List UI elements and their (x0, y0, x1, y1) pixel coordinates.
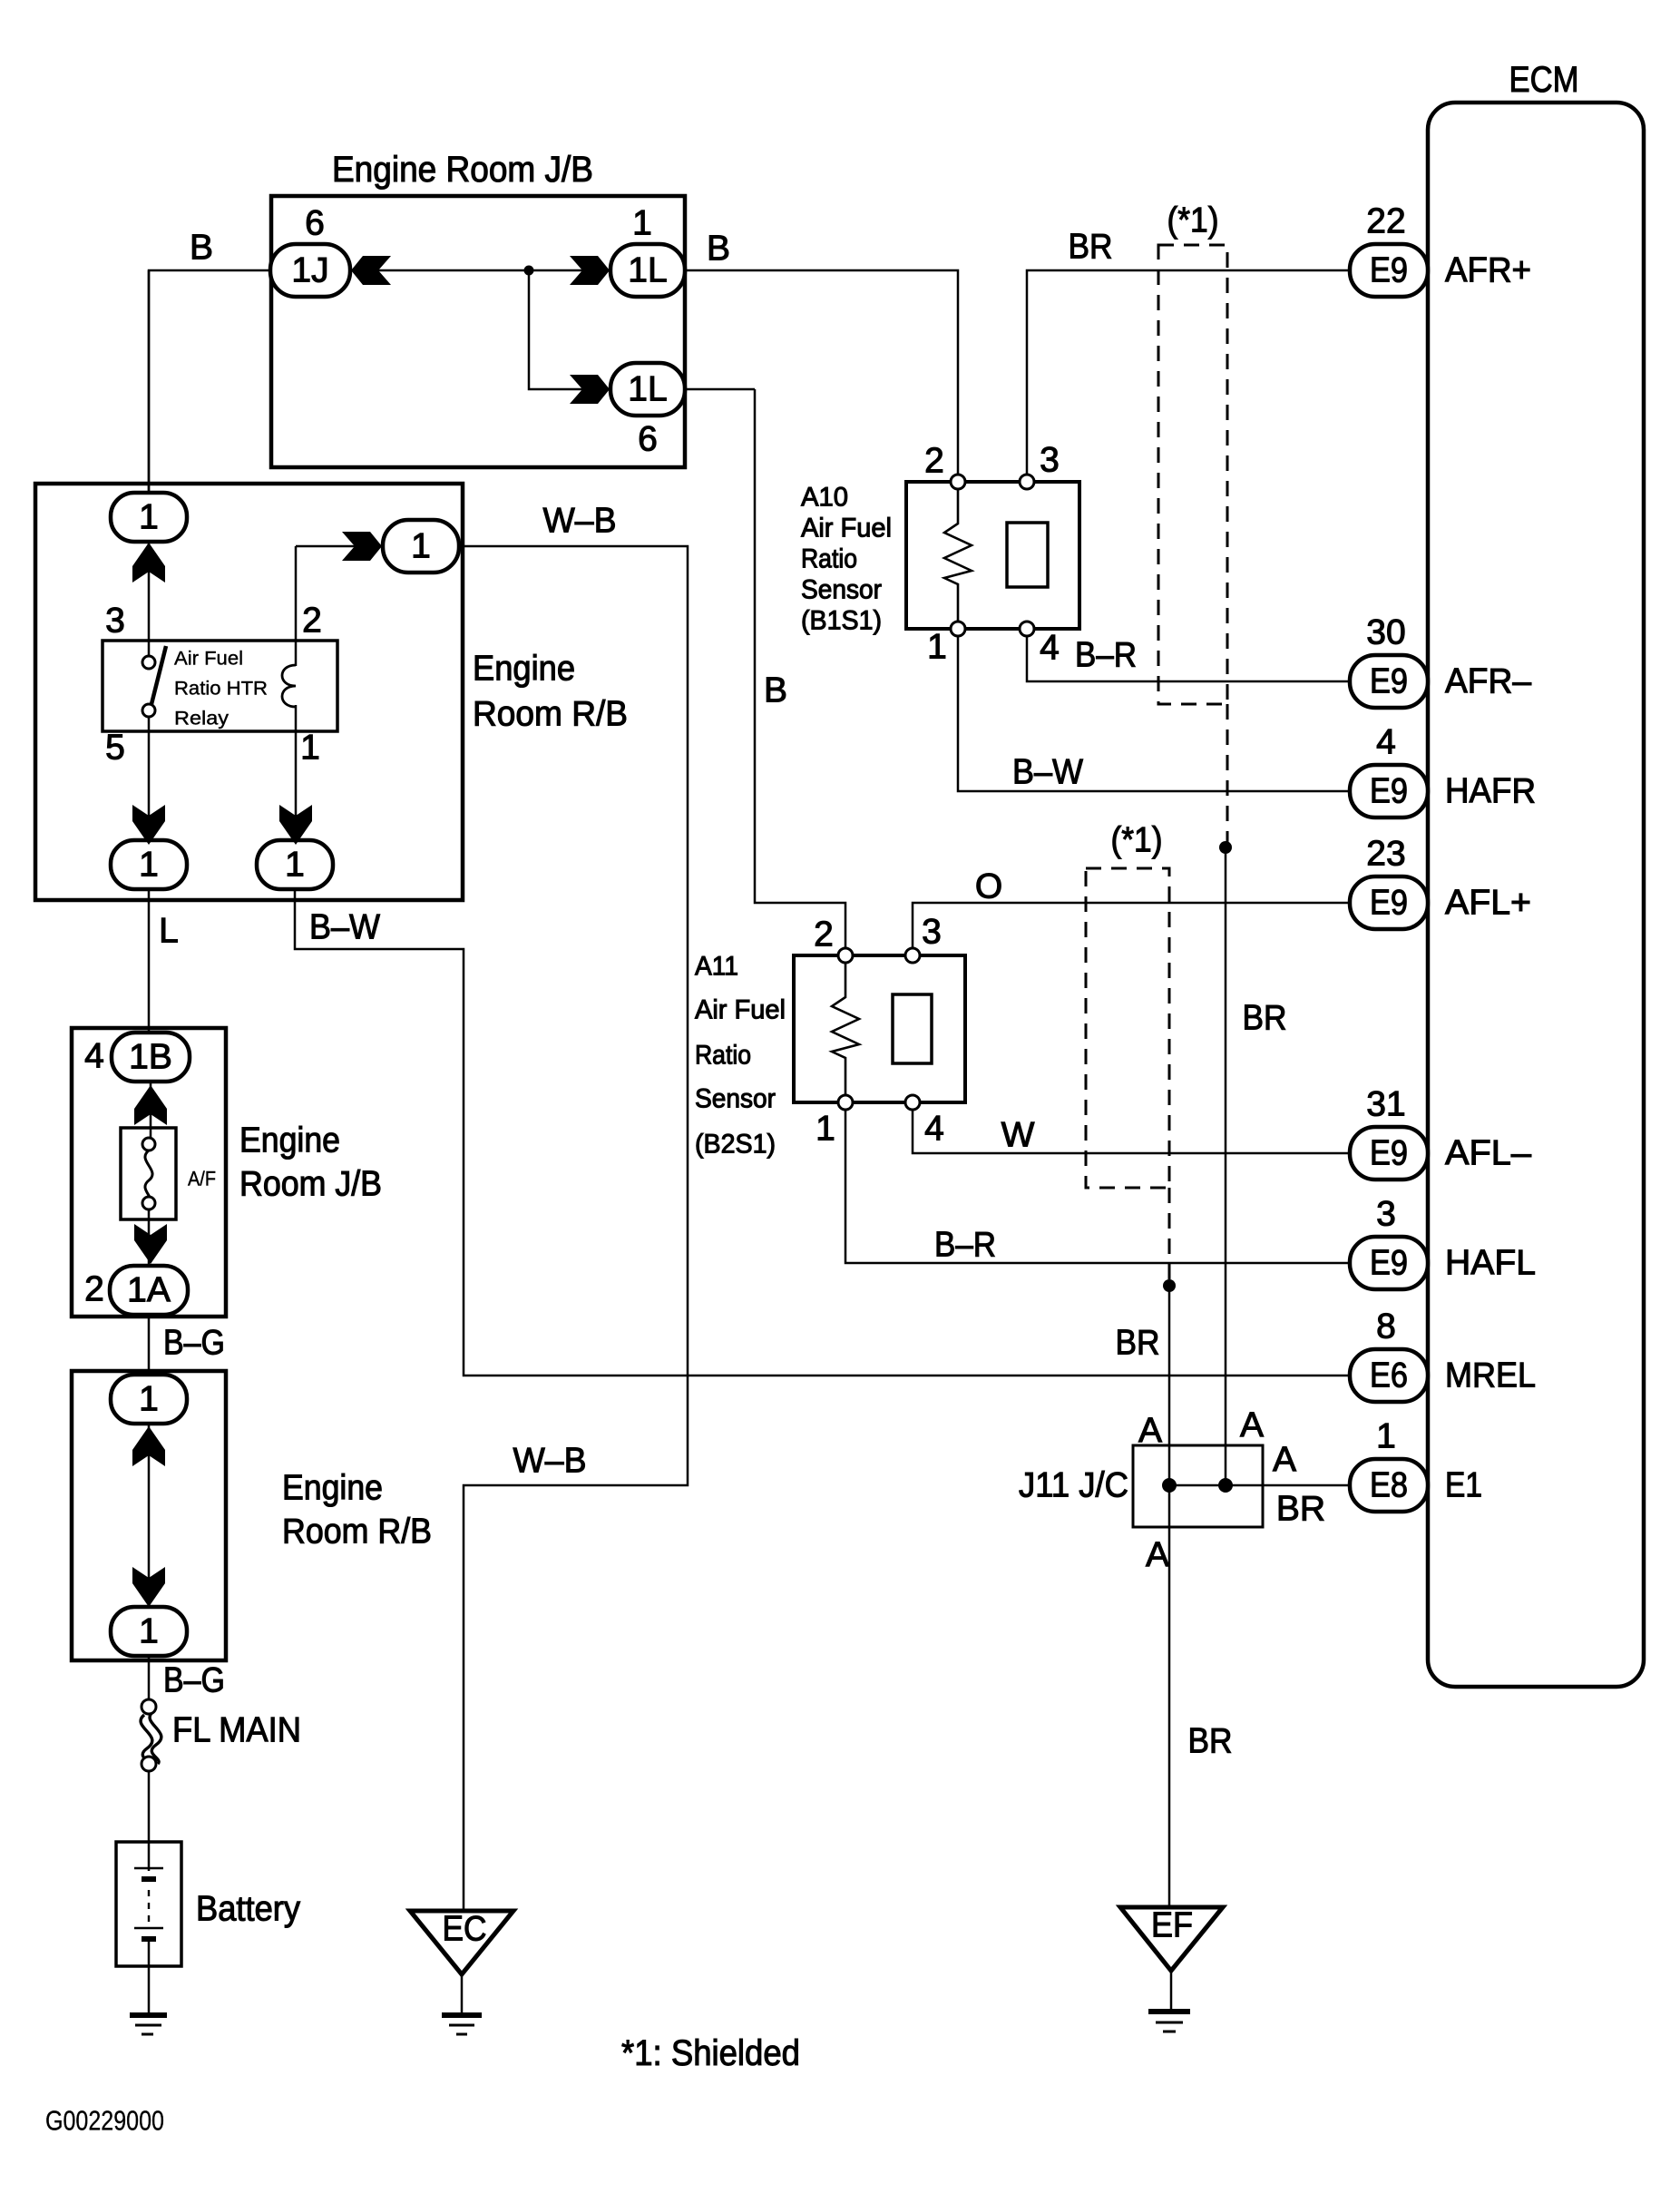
svg-text:Air Fuel: Air Fuel (174, 649, 243, 670)
svg-text:(*1): (*1) (1111, 821, 1163, 860)
svg-text:MREL: MREL (1445, 1356, 1536, 1395)
svg-text:BR: BR (1188, 1722, 1233, 1761)
svg-text:BR: BR (1243, 999, 1287, 1038)
svg-text:B: B (764, 671, 787, 710)
svg-text:Relay: Relay (174, 709, 230, 729)
svg-text:A/F: A/F (188, 1168, 216, 1190)
svg-text:BR: BR (1116, 1324, 1160, 1363)
svg-text:Sensor: Sensor (695, 1084, 776, 1114)
svg-text:1: 1 (139, 1380, 159, 1419)
svg-text:1: 1 (300, 729, 320, 768)
svg-text:1L: 1L (628, 370, 667, 409)
svg-text:B–R: B–R (934, 1226, 996, 1265)
svg-text:W: W (1001, 1116, 1035, 1155)
svg-text:B–R: B–R (1075, 636, 1137, 675)
svg-text:J11 J/C: J11 J/C (1019, 1466, 1128, 1505)
svg-text:2: 2 (302, 602, 322, 641)
svg-text:EC: EC (443, 1910, 487, 1949)
svg-text:6: 6 (638, 420, 658, 459)
svg-text:2: 2 (84, 1270, 104, 1309)
svg-text:E9: E9 (1370, 772, 1408, 811)
svg-text:AFL–: AFL– (1445, 1134, 1531, 1173)
svg-text:2: 2 (814, 915, 834, 955)
svg-text:1L: 1L (628, 251, 667, 290)
svg-text:Engine: Engine (239, 1121, 340, 1160)
svg-text:1: 1 (1376, 1417, 1396, 1456)
svg-text:A: A (1240, 1406, 1264, 1445)
svg-text:EF: EF (1151, 1906, 1193, 1945)
svg-text:E1: E1 (1445, 1466, 1482, 1505)
svg-text:E9: E9 (1370, 1134, 1408, 1173)
svg-text:4: 4 (1376, 723, 1396, 762)
svg-text:(*1): (*1) (1167, 201, 1219, 240)
svg-text:E9: E9 (1370, 884, 1408, 923)
svg-text:(B2S1): (B2S1) (695, 1130, 776, 1160)
svg-text:Air Fuel: Air Fuel (695, 995, 786, 1025)
svg-text:O: O (975, 867, 1002, 906)
svg-text:B–G: B–G (163, 1661, 225, 1700)
svg-text:1B: 1B (129, 1038, 172, 1077)
svg-text:E9: E9 (1370, 251, 1408, 290)
svg-text:AFR–: AFR– (1445, 662, 1531, 701)
svg-text:Air Fuel: Air Fuel (801, 514, 892, 543)
svg-text:AFL+: AFL+ (1445, 884, 1531, 923)
svg-text:AFR+: AFR+ (1445, 251, 1531, 290)
svg-text:6: 6 (305, 204, 325, 243)
svg-text:Engine Room J/B: Engine Room J/B (332, 150, 593, 190)
svg-text:B: B (707, 230, 730, 269)
svg-text:Ratio: Ratio (801, 544, 857, 574)
svg-text:1: 1 (139, 1612, 159, 1651)
svg-text:Room R/B: Room R/B (473, 695, 628, 734)
svg-text:BR: BR (1069, 228, 1113, 267)
svg-text:E9: E9 (1370, 662, 1408, 701)
svg-text:HAFL: HAFL (1445, 1244, 1536, 1283)
svg-text:1: 1 (411, 527, 431, 566)
svg-text:5: 5 (105, 729, 125, 768)
svg-text:Ratio HTR: Ratio HTR (174, 679, 268, 700)
svg-text:B–W: B–W (309, 908, 380, 947)
svg-text:W–B: W–B (543, 502, 617, 541)
svg-text:A: A (1138, 1412, 1162, 1451)
svg-text:B: B (190, 229, 213, 268)
svg-text:23: 23 (1366, 835, 1405, 874)
svg-text:3: 3 (1040, 441, 1060, 480)
svg-text:3: 3 (1376, 1195, 1396, 1234)
svg-text:ECM: ECM (1509, 60, 1579, 100)
svg-text:1: 1 (632, 204, 652, 243)
svg-text:Battery: Battery (196, 1890, 300, 1929)
svg-text:1: 1 (927, 628, 947, 667)
svg-text:A11: A11 (695, 952, 738, 982)
svg-text:31: 31 (1366, 1085, 1405, 1124)
svg-text:E8: E8 (1370, 1466, 1408, 1505)
svg-text:FL MAIN: FL MAIN (172, 1711, 301, 1750)
svg-text:4: 4 (1040, 629, 1060, 668)
svg-text:B–W: B–W (1012, 753, 1083, 792)
svg-text:1J: 1J (291, 251, 328, 290)
svg-text:B–G: B–G (163, 1324, 225, 1363)
svg-text:E9: E9 (1370, 1244, 1408, 1283)
svg-text:1A: 1A (127, 1271, 171, 1310)
svg-text:L: L (159, 912, 179, 951)
svg-text:Room R/B: Room R/B (282, 1513, 432, 1552)
svg-text:30: 30 (1366, 613, 1405, 652)
svg-text:3: 3 (922, 913, 942, 952)
svg-text:22: 22 (1366, 202, 1405, 241)
svg-text:4: 4 (924, 1110, 944, 1149)
svg-text:1: 1 (139, 846, 159, 885)
svg-text:E6: E6 (1370, 1356, 1408, 1395)
svg-text:Sensor: Sensor (801, 575, 882, 605)
svg-text:1: 1 (139, 498, 159, 537)
svg-text:HAFR: HAFR (1445, 772, 1536, 811)
svg-text:2: 2 (924, 442, 944, 481)
svg-text:G00229000: G00229000 (45, 2105, 164, 2137)
svg-text:4: 4 (84, 1037, 104, 1076)
svg-text:A: A (1273, 1441, 1296, 1480)
svg-text:Engine: Engine (473, 650, 575, 689)
svg-text:BR: BR (1276, 1490, 1325, 1529)
svg-text:A10: A10 (801, 483, 848, 513)
svg-text:(B1S1): (B1S1) (801, 606, 882, 636)
svg-text:Engine: Engine (282, 1469, 383, 1508)
svg-text:W–B: W–B (513, 1442, 587, 1481)
svg-text:3: 3 (105, 602, 125, 641)
svg-text:A: A (1146, 1536, 1169, 1575)
svg-text:1: 1 (816, 1110, 835, 1149)
svg-text:*1: Shielded: *1: Shielded (621, 2033, 800, 2073)
svg-text:1: 1 (285, 846, 305, 885)
svg-text:Room J/B: Room J/B (239, 1165, 382, 1204)
svg-text:8: 8 (1376, 1307, 1396, 1346)
svg-text:Ratio: Ratio (695, 1041, 751, 1071)
